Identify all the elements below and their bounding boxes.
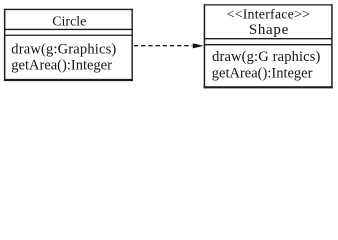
interface box Shape: compartment divider 2 <box>205 44 333 46</box>
svg-text:draw(g:Graphics): draw(g:Graphics) <box>11 42 116 58</box>
class box Circle: outline <box>4 9 133 81</box>
interface box Shape: compartment divider 1 <box>205 38 333 40</box>
interface box Shape: outline <box>204 4 333 88</box>
svg-text:draw(g:G raphics): draw(g:G raphics) <box>212 49 320 65</box>
class box Circle: compartment divider 1 <box>4 28 133 30</box>
class box Circle: compartment divider 2 <box>4 34 133 36</box>
svg-text:Circle: Circle <box>52 15 86 30</box>
svg-text:getArea():Integer: getArea():Integer <box>11 58 112 74</box>
realization arrowhead <box>193 43 204 48</box>
svg-text:getArea():Integer: getArea():Integer <box>212 66 313 82</box>
dashed realization arrow wire <box>134 45 192 47</box>
svg-text:Shape: Shape <box>249 22 289 38</box>
svg-text:<<Interface>>: <<Interface>> <box>227 7 311 22</box>
